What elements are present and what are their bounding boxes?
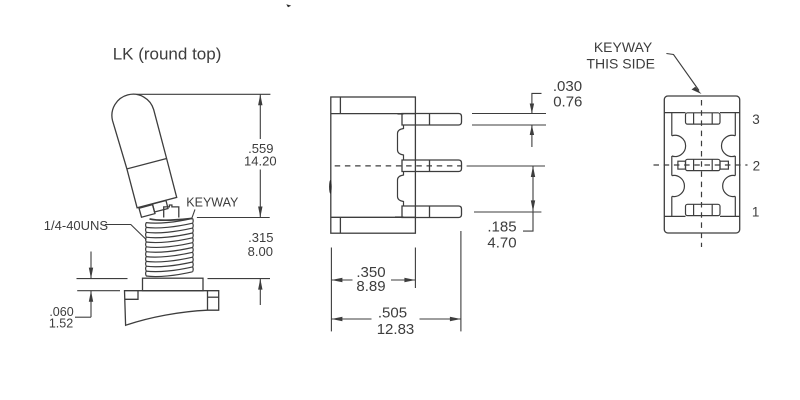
inner wall left bbox=[664, 113, 685, 217]
dimension .185 4.70 bbox=[487, 166, 535, 252]
label 1/4-40UNS bbox=[44, 218, 109, 233]
dimension .559 14.20 bbox=[244, 94, 277, 217]
bump on left edge bbox=[329, 180, 332, 194]
dimension .505 12.83 bbox=[331, 305, 461, 339]
svg-text:4.70: 4.70 bbox=[487, 235, 516, 252]
1/4-40UNS leader line bbox=[105, 225, 147, 240]
svg-text:12.83: 12.83 bbox=[377, 321, 415, 338]
svg-text:.315: .315 bbox=[248, 230, 273, 245]
switch body side view bbox=[125, 291, 219, 326]
svg-text:8.89: 8.89 bbox=[356, 278, 385, 295]
svg-text:2: 2 bbox=[753, 159, 761, 174]
svg-text:0.76: 0.76 bbox=[553, 94, 582, 111]
horizontal centerline bottom view bbox=[654, 164, 748, 166]
bushing threads 1/4-40UNS bbox=[146, 218, 194, 276]
terminal slot 1 bbox=[686, 204, 721, 215]
label KEYWAY left view bbox=[186, 196, 239, 210]
inner wall right bbox=[720, 113, 740, 217]
svg-text:1.52: 1.52 bbox=[49, 316, 73, 330]
keyway leader line bbox=[192, 209, 195, 218]
extension line nut top left bbox=[77, 278, 128, 280]
extension line body top left bbox=[77, 290, 120, 292]
extension line body right bottom bbox=[414, 248, 416, 289]
extension lines pin thickness bbox=[472, 114, 546, 126]
dimension .060 1.52 bbox=[49, 252, 93, 331]
extension line lever top bbox=[137, 93, 271, 95]
toggle lever bbox=[112, 94, 177, 208]
terminal pin 2 side view bbox=[402, 160, 462, 172]
svg-text:14.20: 14.20 bbox=[244, 154, 277, 169]
dimension .030 0.76 bbox=[530, 78, 583, 147]
extension line pin1 bbox=[474, 211, 541, 213]
svg-text:8.00: 8.00 bbox=[248, 244, 273, 259]
svg-text:KEYWAY: KEYWAY bbox=[186, 196, 239, 210]
round cutout lower right bbox=[723, 175, 736, 196]
terminal recess profile bbox=[395, 114, 404, 217]
round cutout lower left bbox=[672, 175, 685, 196]
svg-text:3: 3 bbox=[752, 112, 760, 127]
lever tenon bbox=[139, 201, 168, 218]
svg-text:1/4-40UNS: 1/4-40UNS bbox=[44, 218, 109, 233]
title LK (round top) bbox=[113, 45, 222, 64]
switch body middle view bbox=[331, 97, 416, 233]
svg-text:.030: .030 bbox=[553, 78, 582, 95]
extension line bushing top bbox=[197, 217, 270, 219]
vertical centerline bottom view bbox=[701, 100, 703, 247]
label KEYWAY THIS SIDE bbox=[586, 39, 654, 72]
round cutout upper left bbox=[672, 135, 686, 156]
svg-text:.185: .185 bbox=[487, 219, 516, 236]
round cutout upper right bbox=[721, 135, 735, 156]
svg-text:.505: .505 bbox=[378, 305, 407, 322]
extension line pin2 centerline bbox=[467, 165, 545, 167]
svg-text:1: 1 bbox=[752, 205, 760, 220]
dimension .350 8.89 bbox=[331, 264, 415, 295]
centerline middle view bbox=[335, 165, 461, 167]
svg-text:KEYWAY: KEYWAY bbox=[594, 39, 653, 55]
extension line pin end bottom bbox=[460, 231, 462, 331]
stray mark top bbox=[286, 4, 291, 7]
keyway tab bbox=[164, 205, 179, 218]
extension line body left bottom bbox=[330, 248, 332, 332]
terminal slot 2 bbox=[678, 159, 729, 170]
terminal pin 1 side view bbox=[402, 206, 462, 218]
terminal slot 3 bbox=[686, 113, 721, 124]
keyway this side leader arrow bbox=[666, 54, 701, 95]
terminal pin 3 side view bbox=[402, 114, 462, 126]
svg-text:THIS SIDE: THIS SIDE bbox=[586, 56, 654, 72]
svg-text:LK (round top): LK (round top) bbox=[113, 45, 222, 64]
dimension .315 8.00 bbox=[248, 230, 274, 305]
extension line nut top right bbox=[208, 278, 271, 280]
bushing nut bbox=[143, 278, 204, 291]
switch body bottom view bbox=[664, 96, 739, 233]
